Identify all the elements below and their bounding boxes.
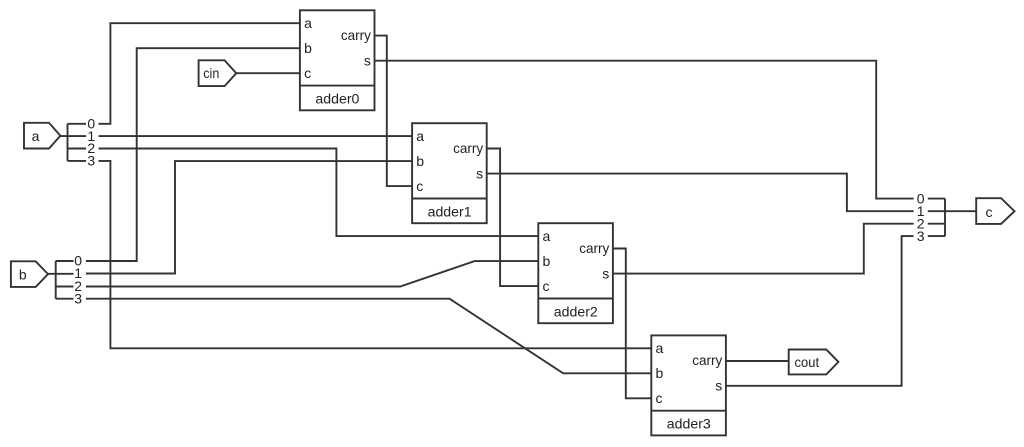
svg-text:cin: cin (203, 65, 219, 81)
svg-text:s: s (364, 52, 371, 68)
svg-text:carry: carry (579, 240, 609, 256)
input port b (11, 261, 48, 287)
adder1 U1 (412, 123, 487, 223)
svg-text:b: b (543, 253, 551, 269)
wire a[0] to adder0.a (99, 23, 300, 124)
wire b[2] to adder2.b (86, 261, 538, 286)
svg-text:c: c (656, 390, 663, 406)
svg-text:adder0: adder0 (315, 90, 359, 106)
svg-text:b: b (656, 365, 664, 381)
svg-text:s: s (715, 378, 722, 394)
output port cout (789, 350, 839, 375)
svg-text:s: s (476, 165, 483, 181)
wire a[2] to adder2.a (99, 149, 539, 237)
svg-text:b: b (19, 267, 27, 283)
svg-text:a: a (416, 128, 424, 144)
svg-text:a: a (32, 128, 40, 144)
wire adder1.carry to adder2.c (487, 149, 539, 287)
adder3 U3 (651, 335, 726, 435)
splitter b (48, 253, 82, 307)
adder2 U2 (538, 223, 613, 323)
input port a (24, 123, 60, 149)
wire adder0.carry to adder1.c (375, 36, 413, 187)
svg-text:3: 3 (74, 290, 82, 306)
svg-text:carry: carry (453, 140, 483, 156)
wire adder0.s to joiner c bit 0 (375, 61, 914, 199)
svg-text:a: a (543, 228, 551, 244)
svg-text:carry: carry (692, 352, 722, 368)
wire a[1] to adder1.a (99, 135, 413, 137)
joiner c (917, 190, 976, 244)
svg-text:3: 3 (87, 153, 95, 169)
wire cin to adder0.c (236, 72, 300, 74)
wire b[1] to adder1.b (86, 161, 412, 273)
svg-text:cout: cout (795, 354, 820, 370)
svg-text:adder1: adder1 (428, 203, 472, 219)
svg-text:c: c (416, 178, 423, 194)
svg-text:carry: carry (341, 27, 371, 43)
wire adder3.s to joiner c bit 3 (726, 236, 914, 386)
wire adder3.carry to cout (726, 360, 789, 362)
svg-text:a: a (304, 15, 312, 31)
wire b[0] to adder0.b (86, 48, 300, 261)
svg-text:c: c (986, 204, 993, 220)
svg-text:s: s (602, 265, 609, 281)
input port cin (199, 60, 237, 86)
svg-text:adder3: adder3 (667, 416, 711, 432)
output port c (976, 198, 1014, 224)
svg-text:c: c (304, 65, 311, 81)
wire b[3] to adder3.b (86, 299, 651, 374)
svg-text:a: a (656, 340, 664, 356)
svg-text:3: 3 (917, 228, 925, 244)
wire adder2.s to joiner c bit 2 (613, 224, 914, 274)
svg-text:c: c (543, 278, 550, 294)
splitter a (60, 115, 95, 168)
svg-text:b: b (416, 153, 424, 169)
wire a[3] to adder3.a (99, 161, 652, 348)
svg-text:adder2: adder2 (554, 303, 598, 319)
adder0 U0 (300, 10, 375, 110)
wire adder2.carry to adder3.c (613, 249, 651, 399)
wire adder1.s to joiner c bit 1 (487, 174, 914, 212)
svg-text:b: b (304, 40, 312, 56)
